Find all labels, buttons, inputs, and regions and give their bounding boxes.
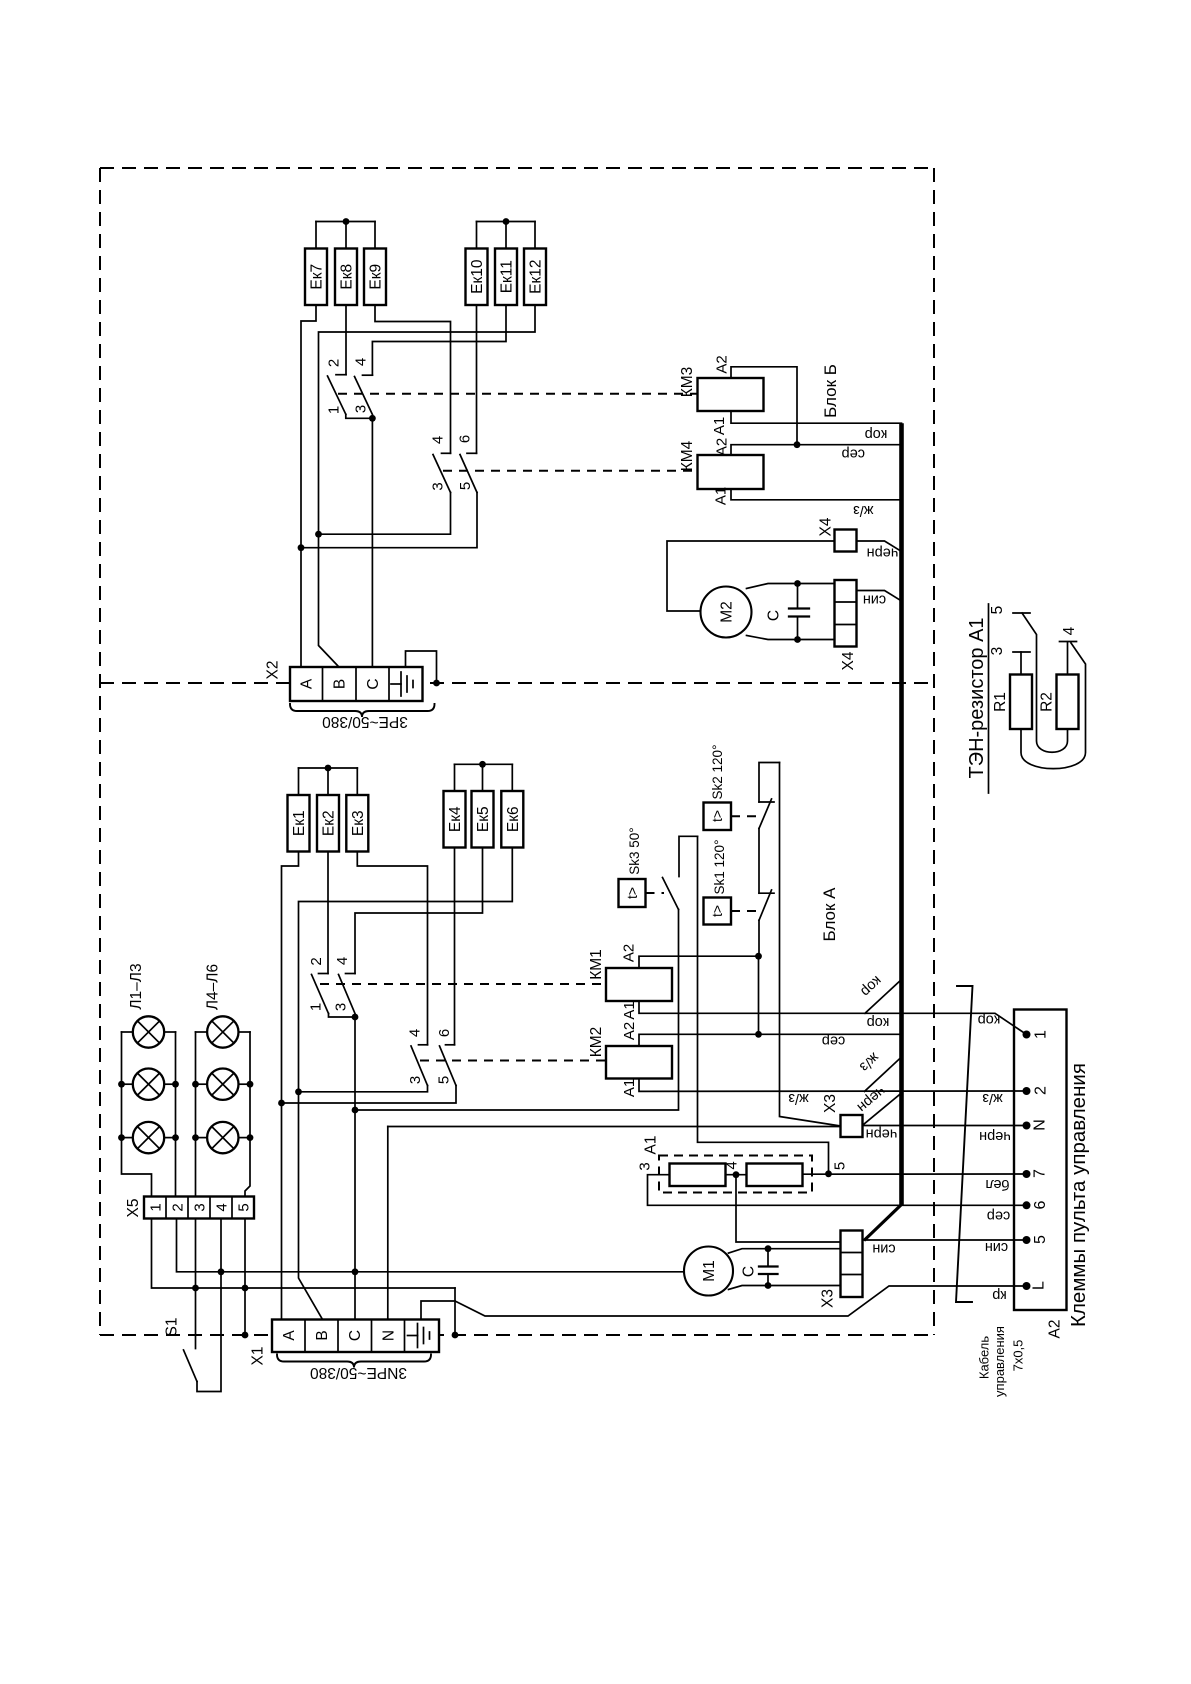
lamp Л1: [122, 1016, 176, 1047]
svg-text:управления: управления: [992, 1326, 1007, 1397]
contact KM2 pole 4-3: [299, 1045, 428, 1092]
svg-text:Блок Б: Блок Б: [821, 364, 840, 418]
KM1 terminal A2 wire: [639, 956, 759, 968]
wire Ек9 to contact 4 (group 2): [375, 305, 451, 453]
heater Ек8: [335, 249, 357, 306]
junction dots lamp Л5: [192, 1081, 253, 1088]
junction dot X5.5 on PE line: [242, 1285, 249, 1292]
heater Ек2: [317, 795, 339, 852]
wire M1 lower terminal: [729, 1286, 841, 1290]
wire X5.5 to PE line: [244, 1219, 246, 1289]
cable bus (control cable run): [899, 423, 904, 1204]
KM3 terminal A1 wire (кор): [731, 411, 902, 423]
contactor coil KM1: [588, 949, 672, 1001]
svg-text:А1: А1: [643, 1136, 660, 1155]
svg-text:А1: А1: [621, 1001, 638, 1019]
svg-text:черн: черн: [979, 1128, 1011, 1144]
connector X4 (triple): [835, 580, 857, 647]
svg-text:М1: М1: [701, 1260, 718, 1282]
junction dot capacitor top: [794, 580, 801, 587]
svg-text:3: 3: [192, 1203, 209, 1211]
heater Ек6: [501, 791, 523, 848]
enclosure dashed frame bottom edge: [100, 1334, 934, 1336]
heater Ек10: [466, 249, 488, 306]
heater Ек9: [364, 249, 386, 306]
wire PE line drop to enclosure: [454, 1288, 456, 1335]
contact KM1 pole 1-2: [312, 974, 356, 1018]
contactor coil KM3: [679, 367, 764, 411]
svg-text:N: N: [1032, 1119, 1049, 1131]
enclosure dashed divider between Блок Б and Блок А: [100, 682, 934, 684]
svg-text:син: син: [863, 592, 886, 608]
wire Ек8 to contact 2: [345, 305, 347, 375]
svg-text:КМ1: КМ1: [588, 949, 605, 980]
svg-text:Ек11: Ек11: [499, 260, 516, 293]
junction dot on phase B riser: [295, 1088, 302, 1095]
terminal 2 dot: [1023, 1087, 1031, 1095]
terminal N dot: [1023, 1122, 1031, 1130]
contact KM4 pole 4-3: [319, 453, 451, 534]
enclosure dashed frame right edge: [933, 168, 935, 1335]
svg-text:ж/з: ж/з: [853, 502, 874, 518]
svg-text:Х3: Х3: [820, 1289, 837, 1308]
X2 ground symbol: [391, 672, 413, 696]
wire Ек3 to contact 4 (group 2): [357, 852, 427, 1045]
junction dot phase C on M1 line: [352, 1268, 359, 1275]
ж/з diagonal into cable bus: [865, 1057, 902, 1091]
svg-text:ж/з: ж/з: [788, 1090, 809, 1106]
svg-text:1: 1: [326, 406, 343, 414]
connector X3 (single): [841, 1115, 863, 1137]
lamp rail left (Л4-Л6): [195, 1032, 197, 1197]
terminal tick 4: [1060, 641, 1077, 643]
contact KM3 pole 3-4: [355, 375, 373, 414]
svg-text:Sk3 50°: Sk3 50°: [627, 827, 642, 874]
svg-text:А2: А2: [621, 944, 638, 962]
heater Ек5: [472, 791, 494, 848]
svg-text:А2: А2: [714, 355, 731, 373]
lamp Л6: [196, 1122, 251, 1153]
heater Ек4: [444, 791, 466, 848]
svg-text:Ек8: Ек8: [339, 264, 356, 290]
mechanical link KM4: [443, 470, 698, 472]
enclosure dashed frame top edge: [100, 167, 934, 169]
svg-text:5: 5: [989, 606, 1006, 615]
svg-text:Ек9: Ек9: [368, 264, 385, 290]
svg-text:3: 3: [637, 1162, 654, 1170]
wire Ек7 to X2 phase A: [301, 305, 316, 667]
junction dot capacitor bottom: [765, 1282, 772, 1289]
hairpin outer loop R2-R1: [1021, 643, 1086, 769]
Sk3 contact (NO): [663, 836, 698, 909]
svg-text:сер: сер: [842, 446, 865, 462]
svg-text:С: С: [347, 1330, 364, 1341]
svg-text:2: 2: [308, 957, 325, 965]
wire contacts common to X1 phase C: [354, 1017, 356, 1320]
wire Ек12 to X2 phase B: [319, 305, 536, 667]
junction dot on бел wire: [825, 1170, 832, 1177]
svg-text:6: 6: [436, 1029, 453, 1037]
thermostat Sk1 box: [704, 898, 732, 925]
svg-text:1: 1: [148, 1203, 165, 1211]
junction dot Ек2 top: [325, 765, 332, 772]
wire M2 lower terminal: [747, 636, 835, 640]
svg-text:кор: кор: [865, 426, 888, 442]
svg-text:ТЭН-резистор А1: ТЭН-резистор А1: [966, 617, 988, 778]
heater Ек1: [288, 795, 310, 852]
terminal tick 3: [1013, 651, 1030, 653]
junction dot on phase A riser: [298, 544, 305, 551]
wire Sk3 return to A1 pin5 (бел): [698, 836, 829, 1174]
junction dot on phase B riser: [315, 531, 322, 538]
resistor A1-R1: [670, 1164, 726, 1187]
motor M2: [701, 587, 752, 638]
wire Ек4 to contact 6 (group 2): [454, 848, 456, 1045]
svg-text:7: 7: [1032, 1169, 1049, 1178]
svg-text:5: 5: [236, 1203, 253, 1211]
wire Ек1 to X1 phase A: [282, 852, 299, 1320]
wire X1.N riser: [387, 1127, 389, 1320]
svg-text:5: 5: [457, 482, 474, 490]
mechanical link KM1: [320, 983, 606, 985]
wire top bus Ек1-Ек3: [299, 768, 358, 795]
Sk1 contact (NC): [759, 890, 774, 920]
junction dot contacts 1,3 common: [352, 1014, 359, 1021]
cable marker slant line: [956, 986, 973, 1302]
svg-text:А: А: [281, 1330, 298, 1341]
svg-text:кр: кр: [992, 1287, 1006, 1303]
Sk2 contact (NC): [759, 763, 780, 829]
connector X4 (single): [835, 530, 857, 552]
KM2 terminal A2 wire (сер): [639, 1034, 902, 1046]
wire Sk3 to phase C line: [355, 910, 679, 1111]
svg-text:М2: М2: [719, 601, 736, 623]
enclosure dashed frame left edge: [99, 168, 101, 1335]
control panel terminal strip A2: [1014, 1010, 1067, 1311]
lamp Л5: [196, 1069, 251, 1100]
svg-text:А2: А2: [621, 1022, 638, 1040]
svg-text:3NРЕ~50/380: 3NРЕ~50/380: [310, 1364, 407, 1381]
lamp Л4: [196, 1016, 251, 1047]
R1 top pin: [1020, 652, 1022, 675]
junction dot Sk3 on phase C riser: [352, 1107, 359, 1114]
svg-text:3: 3: [989, 647, 1006, 656]
svg-text:4: 4: [724, 1161, 741, 1169]
svg-text:3: 3: [333, 1003, 350, 1011]
wire Ек5 to contact 4: [355, 848, 483, 974]
svg-text:Ек4: Ек4: [447, 806, 464, 832]
wire top bus Ек4-Ек6: [455, 764, 513, 791]
wire X5.5 drop to enclosure: [244, 1288, 246, 1335]
svg-text:1: 1: [1033, 1030, 1050, 1039]
terminal 6 dot: [1023, 1201, 1031, 1209]
svg-text:4: 4: [407, 1029, 424, 1037]
wire X5.2 to M1 line: [177, 1219, 685, 1272]
svg-text:КМ4: КМ4: [679, 440, 696, 471]
svg-text:3: 3: [407, 1076, 424, 1084]
wire X4 to cable bus (черн): [857, 541, 902, 552]
terminal L dot: [1023, 1282, 1031, 1290]
svg-text:Х4: Х4: [818, 517, 835, 536]
cable bus bottom diagonal into X3: [864, 1205, 902, 1241]
Sk1 link dashes: [731, 910, 756, 912]
svg-text:син: син: [985, 1239, 1008, 1255]
svg-text:А2: А2: [714, 438, 731, 456]
svg-text:5: 5: [1032, 1235, 1049, 1244]
svg-text:4: 4: [430, 436, 447, 444]
svg-text:С: С: [766, 610, 783, 621]
KM4 terminal A2 wire (сер): [731, 445, 902, 455]
junction dot capacitor top: [765, 1245, 772, 1252]
junction dot Ек8 top: [343, 218, 350, 225]
mechanical link KM3: [338, 393, 698, 395]
svg-text:КМ2: КМ2: [588, 1027, 605, 1058]
wire A1 pin 5 to terminal 7 (бел): [803, 1173, 1027, 1175]
Sk2 link dashes: [731, 815, 756, 817]
junction dot PE on divider: [433, 680, 440, 687]
wire Sk2 to Sk1: [758, 829, 760, 894]
junction dot pin 4: [733, 1171, 740, 1178]
capacitor C (M2): [789, 584, 809, 640]
rail Sk2 to X3 (черн): [780, 763, 841, 1127]
resistor A1-R2: [747, 1164, 803, 1187]
junction dot contacts 1,3 common: [369, 415, 376, 422]
svg-text:4: 4: [334, 957, 351, 965]
wire X3 to terminal 5 (син): [863, 1239, 1027, 1241]
wire M2 upper terminal: [747, 584, 835, 589]
svg-text:1: 1: [308, 1003, 325, 1011]
wire X4 to cable bus (син): [857, 591, 902, 602]
title underline: [988, 604, 990, 793]
svg-text:3: 3: [430, 482, 447, 490]
wire Sk1 to KM1.A2: [758, 920, 760, 956]
heater Ек12: [524, 249, 546, 306]
svg-text:2: 2: [326, 359, 343, 367]
svg-text:черн: черн: [866, 1126, 898, 1142]
svg-text:А2: А2: [1047, 1320, 1064, 1339]
R2 top pin: [1067, 643, 1069, 675]
contact KM4 pole 6-5: [301, 453, 477, 547]
svg-text:сер: сер: [987, 1208, 1010, 1224]
wire S1 return to X5.4: [197, 1219, 221, 1392]
lamp rail left (Л1-Л3): [122, 1032, 152, 1197]
svg-text:В: В: [332, 679, 349, 689]
svg-text:черн: черн: [867, 545, 899, 561]
junction dot A2 common: [794, 441, 801, 448]
svg-text:L: L: [1031, 1281, 1048, 1290]
KM4 terminal A1 wire (ж/з): [731, 489, 902, 500]
resistor R2: [1039, 675, 1079, 730]
heater Ек11: [495, 249, 517, 306]
svg-text:А: А: [299, 678, 316, 689]
junction dot on phase A riser: [278, 1100, 285, 1107]
svg-text:Х2: Х2: [265, 661, 282, 680]
KM1 terminal A1 wire (кор) to terminal 1: [639, 1001, 1027, 1035]
svg-text:Ек6: Ек6: [505, 806, 522, 832]
X1 ground symbol: [408, 1324, 430, 1348]
svg-text:ж/з: ж/з: [982, 1090, 1003, 1106]
svg-text:син: син: [872, 1241, 895, 1257]
svg-text:R1: R1: [992, 692, 1009, 712]
svg-text:Ек10: Ек10: [469, 259, 486, 294]
svg-text:бел: бел: [985, 1176, 1009, 1192]
svg-text:Sk1 120°: Sk1 120°: [712, 840, 727, 895]
terminal 5 dot: [1023, 1236, 1031, 1244]
svg-text:7х0,5: 7х0,5: [1011, 1340, 1026, 1372]
junction dot on enclosure frame: [242, 1332, 249, 1339]
wire X5.1 to PE line: [152, 1219, 456, 1289]
contactor coil KM2: [588, 1027, 672, 1079]
X1 brace: [277, 1355, 431, 1368]
svg-text:t>: t>: [709, 810, 725, 822]
junction dots lamp Л3: [118, 1134, 179, 1141]
junction dot PE on frame: [452, 1332, 459, 1339]
wire Ек2 to contact 2: [327, 852, 329, 974]
switch S1 blade: [184, 1350, 198, 1382]
junction dot capacitor bottom: [794, 636, 801, 643]
lamp Л2: [122, 1069, 176, 1100]
terminal block X1: [272, 1320, 439, 1353]
terminal 1 dot: [1023, 1031, 1031, 1039]
terminal block X2: [290, 667, 423, 701]
wire Ек11 to contact 4: [372, 305, 506, 375]
thermostat Sk2 box: [704, 803, 732, 831]
junction dots lamp Л2: [118, 1081, 179, 1088]
svg-text:В: В: [314, 1330, 331, 1340]
wire кр from PE to terminal L: [455, 1286, 1027, 1316]
svg-text:Кабель: Кабель: [977, 1336, 992, 1379]
capacitor C (M1): [759, 1249, 778, 1286]
wire Ек6 to X1 phase B: [299, 848, 513, 1320]
X1 PE wire loop: [421, 1301, 455, 1320]
junction dots lamp Л6: [192, 1134, 253, 1141]
svg-text:Л4–Л6: Л4–Л6: [205, 964, 222, 1010]
wire X3 to terminal N (черн): [863, 1125, 1027, 1127]
svg-text:5: 5: [832, 1162, 849, 1170]
svg-text:4: 4: [353, 358, 370, 366]
X2 PE wire to enclosure: [406, 651, 437, 683]
черн diagonal into cable bus: [864, 1093, 902, 1124]
contact KM3 pole 1-2: [328, 375, 373, 419]
lamp rail right (Л4-Л6): [245, 1032, 250, 1197]
svg-text:Блок А: Блок А: [820, 887, 839, 942]
svg-text:4: 4: [214, 1203, 231, 1211]
svg-text:t>: t>: [624, 887, 640, 899]
svg-text:Ек7: Ек7: [309, 264, 326, 290]
svg-text:Х3: Х3: [822, 1094, 839, 1113]
svg-text:Ек5: Ек5: [475, 806, 492, 832]
svg-text:t>: t>: [709, 905, 725, 917]
wire pin5 to R2: [1022, 613, 1068, 752]
wire X5.3 to S1: [195, 1219, 197, 1349]
X2 brace: [290, 704, 435, 717]
svg-text:А1: А1: [713, 487, 730, 505]
svg-text:сер: сер: [822, 1033, 845, 1049]
wire M1 upper terminal: [729, 1249, 841, 1253]
svg-text:С: С: [741, 1266, 758, 1277]
svg-text:Клеммы пульта управления: Клеммы пульта управления: [1067, 1063, 1090, 1327]
heater Ек7: [305, 249, 327, 306]
svg-text:Л1–Л3: Л1–Л3: [128, 963, 145, 1009]
KM3 terminal A2 wire: [731, 367, 797, 445]
svg-text:2: 2: [170, 1203, 187, 1211]
terminal block X5: [144, 1197, 254, 1219]
svg-text:кор: кор: [978, 1012, 1001, 1028]
chain wire KM1.A2 to KM2.A2: [758, 956, 760, 1034]
svg-text:А1: А1: [621, 1079, 638, 1097]
Sk3 link dashes: [646, 892, 665, 894]
heater Ек3: [346, 795, 368, 852]
svg-text:R2: R2: [1039, 692, 1056, 712]
motor M1: [684, 1247, 733, 1296]
svg-text:Ек12: Ек12: [528, 260, 545, 294]
svg-text:Ек3: Ек3: [350, 810, 367, 836]
mechanical link KM2: [420, 1060, 606, 1062]
resistor R1: [992, 675, 1032, 730]
svg-text:3РЕ~50/380: 3РЕ~50/380: [322, 713, 408, 730]
junction dot Ек11 top: [503, 218, 510, 225]
contact KM1 pole 3-4: [339, 974, 356, 1014]
lamp rail right (Л1-Л3): [175, 1032, 177, 1197]
svg-text:3: 3: [353, 405, 370, 413]
wire X1.N line to X3 (черн): [388, 1126, 841, 1128]
svg-text:2: 2: [1033, 1086, 1050, 1095]
wire A1 pin 3 to terminal 6 (сер): [648, 1175, 1027, 1206]
wire A1 pin 4 to X3: [726, 1175, 841, 1242]
resistor block A1 dashed outline: [659, 1156, 812, 1193]
svg-text:Х5: Х5: [125, 1199, 142, 1218]
svg-text:кор: кор: [867, 1014, 890, 1030]
svg-text:6: 6: [457, 435, 474, 443]
junction dot X5.4 on M1 line: [218, 1268, 225, 1275]
connector X3 (triple): [841, 1231, 863, 1298]
junction dot Ек5 top: [479, 761, 486, 768]
svg-text:КМ3: КМ3: [679, 367, 696, 398]
wire Ек10 to contact 6 (group 2): [476, 305, 478, 453]
svg-text:S1: S1: [164, 1318, 181, 1337]
wire top bus Ек10-Ек12: [477, 222, 536, 249]
lamp Л3: [122, 1122, 176, 1153]
svg-text:Х1: Х1: [250, 1347, 267, 1366]
wire M2 left to X4 (черн): [667, 541, 835, 611]
junction dot X5.3 on PE line: [192, 1285, 199, 1292]
svg-text:4: 4: [1061, 626, 1078, 635]
wire contacts common to X2 phase C: [371, 418, 373, 667]
кор diagonal into cable bus: [865, 980, 902, 1014]
svg-text:Ек2: Ек2: [321, 810, 338, 836]
svg-text:Ек1: Ек1: [291, 810, 308, 836]
terminal 7 dot: [1023, 1170, 1031, 1178]
junction dot KM2 A2: [755, 1031, 762, 1038]
wire top bus Ек7-Ек9: [316, 222, 375, 249]
contact KM2 pole 6-5: [282, 1045, 457, 1103]
svg-text:6: 6: [1032, 1200, 1049, 1209]
svg-text:N: N: [381, 1330, 398, 1341]
svg-text:Х4: Х4: [840, 651, 857, 670]
terminal tick 5: [1013, 612, 1030, 614]
svg-text:Sk2 120°: Sk2 120°: [710, 745, 725, 800]
svg-text:А1: А1: [711, 417, 728, 435]
contactor coil KM4: [679, 440, 764, 489]
svg-text:5: 5: [436, 1076, 453, 1084]
svg-text:С: С: [365, 678, 382, 689]
KM2 terminal A1 wire (ж/з) to terminal 2: [639, 1079, 1027, 1092]
thermostat Sk3 box: [619, 879, 646, 907]
junction dot KM1 A2: [755, 953, 762, 960]
